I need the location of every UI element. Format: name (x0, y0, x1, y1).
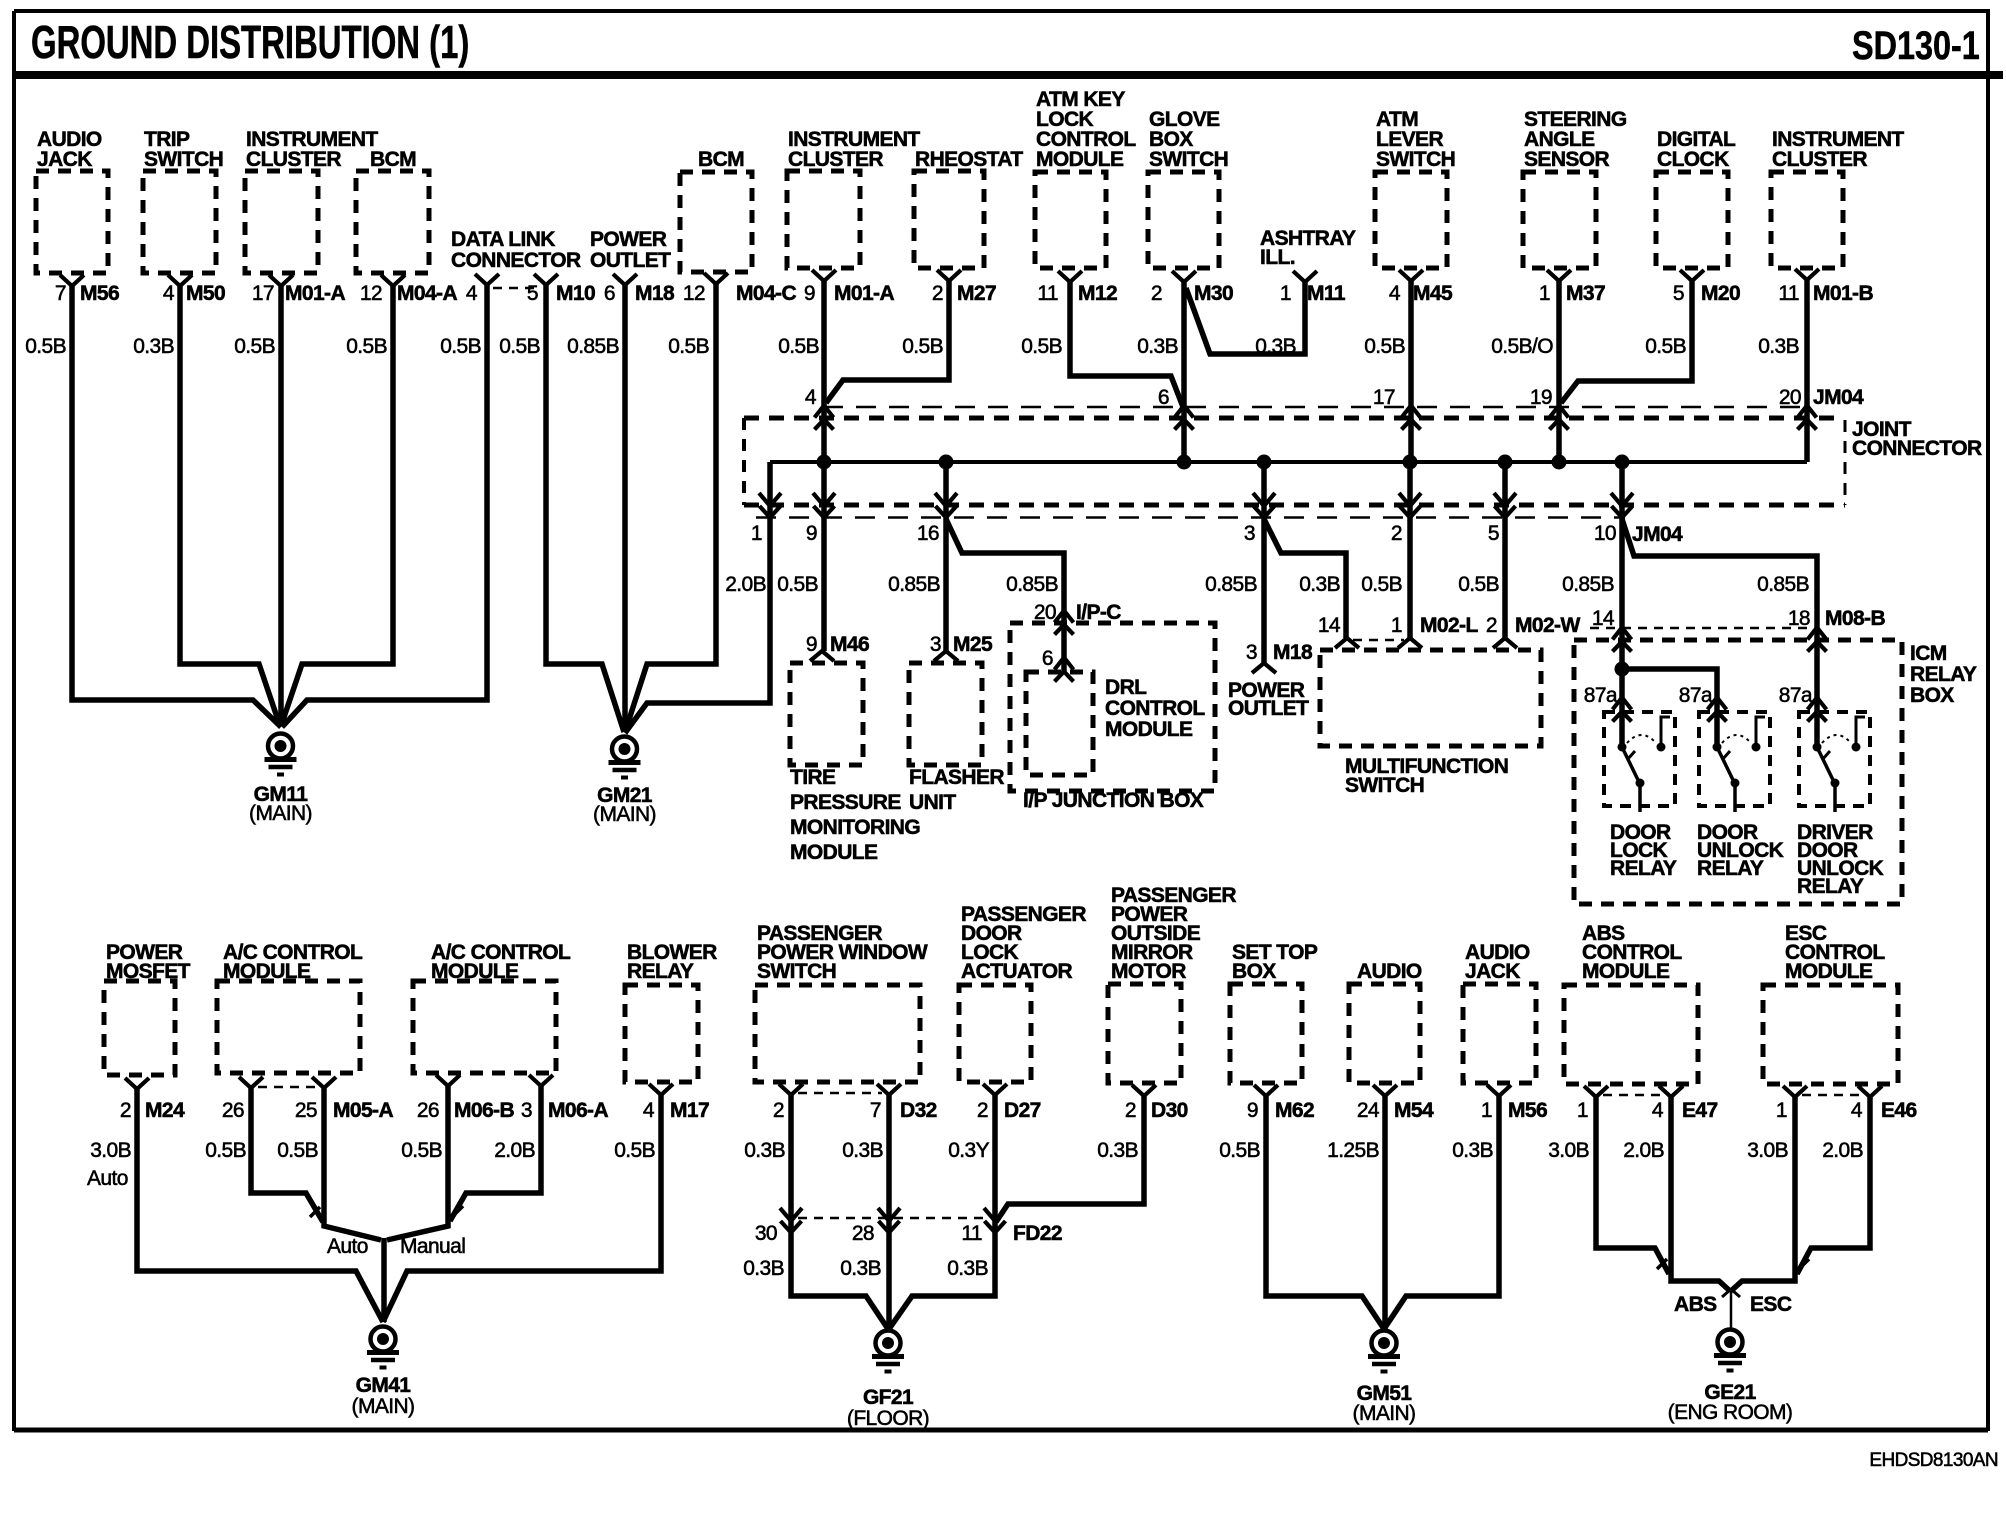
svg-text:4: 4 (1652, 1099, 1664, 1122)
svg-text:4: 4 (163, 282, 175, 305)
svg-text:RELAY: RELAY (627, 960, 694, 983)
svg-text:0.5B: 0.5B (1361, 573, 1402, 596)
joint connector JM04 box (823, 406, 1807, 409)
svg-text:(MAIN): (MAIN) (249, 802, 312, 825)
ground GE21 (ENG ROOM) (1718, 1330, 1743, 1355)
svg-text:GROUND DISTRIBUTION (1): GROUND DISTRIBUTION (1) (31, 18, 469, 69)
component box SET TOP BOX (1230, 984, 1302, 1083)
wire JM04 pin9 to M46 (821, 462, 827, 651)
svg-text:M01-B: M01-B (1813, 282, 1873, 305)
ICM junction dot and feed to door unlock relay (1615, 662, 1630, 677)
wire JM04 pin16 to M25 (943, 462, 949, 651)
connector pin 9 M62 at x=1266 (1254, 1085, 1278, 1096)
wire DLC pin5 to GM21 (546, 285, 624, 732)
connector tie multifunction pins (1353, 639, 1404, 642)
connector pin 11 M12 at x=1070 (1058, 271, 1082, 282)
svg-text:87a: 87a (1679, 684, 1713, 707)
svg-text:BCM: BCM (370, 148, 416, 171)
svg-text:2.0B: 2.0B (494, 1139, 535, 1162)
svg-text:6: 6 (1042, 647, 1053, 670)
connector pin 1 at x=1795 (1783, 1086, 1807, 1097)
connector M08-B pin18 (1808, 628, 1827, 652)
wire M06-A pin3 2.0B (450, 1086, 541, 1221)
svg-text:TIRE: TIRE (790, 766, 836, 789)
svg-text:M46: M46 (830, 633, 869, 656)
svg-text:OUTLET: OUTLET (590, 249, 671, 272)
svg-text:JACK: JACK (37, 148, 92, 171)
svg-text:AUDIO: AUDIO (1357, 960, 1422, 983)
svg-text:2: 2 (1486, 614, 1497, 637)
svg-text:M56: M56 (80, 282, 119, 305)
svg-text:18: 18 (1788, 607, 1810, 630)
svg-text:1: 1 (1391, 614, 1402, 637)
svg-text:MODULE: MODULE (1582, 960, 1670, 983)
svg-text:6: 6 (604, 282, 615, 305)
svg-text:ILL.: ILL. (1260, 246, 1295, 269)
wire M17 blower relay to GM41 (383, 1095, 661, 1322)
svg-text:4: 4 (466, 282, 478, 305)
wire M11 ashtray joins M30 (1186, 282, 1305, 354)
connector M02-W pin2 (1493, 638, 1517, 648)
svg-text:1: 1 (1776, 1099, 1787, 1122)
svg-text:20: 20 (1034, 601, 1056, 624)
connector pin 4 M45 at x=1411 (1399, 270, 1423, 281)
wire D32 pin7 to FD22 pin28 (886, 1095, 892, 1329)
svg-text:0.5B/O: 0.5B/O (1491, 335, 1553, 358)
wire M24 3.0B to GM41 (137, 1089, 383, 1322)
svg-text:30: 30 (755, 1222, 777, 1245)
svg-text:(MAIN): (MAIN) (1353, 1402, 1416, 1425)
svg-text:0.3B: 0.3B (947, 1257, 988, 1280)
svg-text:(MAIN): (MAIN) (352, 1395, 415, 1418)
svg-text:POWER: POWER (590, 228, 667, 251)
svg-text:Auto: Auto (87, 1167, 128, 1190)
svg-text:3: 3 (521, 1099, 532, 1122)
component box RHEOSTAT (914, 171, 984, 268)
connector tie M08-B pins (1590, 627, 1810, 630)
svg-text:CLOCK: CLOCK (1657, 148, 1729, 171)
svg-text:0.85B: 0.85B (1562, 573, 1614, 596)
wire D30 mirror motor joins FD22 pin11 (996, 1096, 1144, 1222)
svg-text:DATA LINK: DATA LINK (451, 228, 555, 251)
svg-text:0.5B: 0.5B (234, 335, 275, 358)
svg-text:M02-L: M02-L (1420, 614, 1478, 637)
svg-text:0.3B: 0.3B (743, 1257, 784, 1280)
svg-text:MOSFET: MOSFET (106, 960, 191, 983)
svg-text:2.0B: 2.0B (1623, 1139, 1664, 1162)
svg-text:SD130-1: SD130-1 (1852, 23, 1980, 68)
svg-text:(FLOOR): (FLOOR) (847, 1407, 929, 1430)
svg-text:1.25B: 1.25B (1327, 1139, 1379, 1162)
connector tie E47 (1603, 1094, 1664, 1097)
wire JM04 pin3 to power outlet M18 (1261, 462, 1267, 663)
wire M04-C to GM21 (625, 284, 716, 732)
svg-text:0.5B: 0.5B (902, 335, 943, 358)
connector pin 4 M50 at x=180 (168, 275, 192, 286)
wire M56 to GM11 (72, 285, 281, 727)
svg-text:0.5B: 0.5B (1364, 335, 1405, 358)
multifunction switch box (1320, 650, 1541, 746)
connector M02-L pin1 (1398, 638, 1422, 648)
svg-text:ESC: ESC (1750, 1293, 1792, 1316)
svg-text:5: 5 (1488, 522, 1499, 545)
wire M12 to JM04 pin6 (1070, 282, 1183, 407)
svg-text:0.5B: 0.5B (346, 335, 387, 358)
svg-text:11: 11 (1778, 282, 1799, 305)
svg-text:0.3Y: 0.3Y (948, 1139, 989, 1162)
svg-text:3.0B: 3.0B (90, 1139, 131, 1162)
svg-text:0.5B: 0.5B (25, 335, 66, 358)
ground GM51 (MAIN) (1372, 1331, 1397, 1356)
svg-text:JM04: JM04 (1632, 523, 1683, 546)
svg-text:M45: M45 (1413, 282, 1453, 305)
svg-text:MODULE: MODULE (223, 960, 311, 983)
wire M05-A pin26 (251, 1088, 323, 1222)
svg-text:0.3B: 0.3B (1758, 335, 1799, 358)
svg-text:M12: M12 (1078, 282, 1117, 305)
FD22 chevrons (780, 1208, 802, 1233)
connector pin 25 M05-A at x=324 (312, 1077, 336, 1088)
wire branch pin10 to M08-B pin18 (1622, 519, 1817, 747)
svg-text:20: 20 (1779, 386, 1801, 409)
wire M05-A pin25 auto branch (324, 1088, 381, 1240)
svg-text:26: 26 (222, 1099, 244, 1122)
wire M56 audio jack to GM51 (1384, 1096, 1499, 1329)
connector pin 9 M01-A at x=824 (812, 270, 836, 281)
svg-text:D32: D32 (900, 1099, 937, 1122)
header rule (13, 71, 2003, 79)
svg-text:M62: M62 (1275, 1099, 1314, 1122)
svg-text:OUTLET: OUTLET (1228, 697, 1309, 720)
svg-text:SWITCH: SWITCH (1149, 148, 1228, 171)
connector tie M05-A (258, 1086, 317, 1089)
connector pin 2 M30 at x=1184 (1172, 271, 1196, 282)
svg-text:0.5B: 0.5B (1021, 335, 1062, 358)
wire M06-B pin26 manual branch (387, 1086, 448, 1240)
component box ATM LEVER SWITCH (1375, 172, 1447, 268)
svg-text:0.5B: 0.5B (205, 1139, 246, 1162)
svg-text:ACTUATOR: ACTUATOR (961, 960, 1073, 983)
svg-text:Manual: Manual (400, 1235, 465, 1258)
connector pin 26 at x=251 (239, 1077, 263, 1088)
wire combined A/C to GM41 (381, 1238, 387, 1322)
svg-text:(MAIN): (MAIN) (593, 803, 656, 826)
wire E47 pin1 3.0B (1596, 1097, 1669, 1274)
svg-text:Auto: Auto (327, 1235, 368, 1258)
component box A/C CONTROL MODULE (2) (413, 981, 556, 1073)
svg-text:0.5B: 0.5B (401, 1139, 442, 1162)
svg-text:0.5B: 0.5B (777, 573, 818, 596)
svg-text:0.3B: 0.3B (744, 1139, 785, 1162)
component box STEERING ANGLE SENSOR (1523, 172, 1596, 268)
svg-text:M27: M27 (957, 282, 996, 305)
svg-text:M24: M24 (145, 1099, 185, 1122)
svg-text:MODULE: MODULE (1785, 960, 1873, 983)
wire D27 pin2 to FD22 pin11 (889, 1095, 995, 1329)
svg-text:EHDSD8130AN: EHDSD8130AN (1869, 1450, 1998, 1471)
svg-text:5: 5 (1673, 282, 1684, 305)
component box POWER MOSFET (104, 981, 175, 1075)
svg-text:M56: M56 (1508, 1099, 1547, 1122)
svg-text:25: 25 (295, 1099, 317, 1122)
ground GM21 (MAIN) (612, 737, 637, 762)
component box DIGITAL CLOCK (1656, 172, 1728, 268)
component box TIRE PRESSURE MONITORING MODULE (790, 663, 863, 765)
connector multifunction pin14 (1335, 638, 1359, 648)
svg-text:SWITCH: SWITCH (1376, 148, 1455, 171)
svg-text:CONNECTOR: CONNECTOR (1852, 437, 1982, 460)
svg-text:SENSOR: SENSOR (1524, 148, 1610, 171)
connector pin 24 M54 at x=1385 (1373, 1085, 1397, 1096)
svg-text:2: 2 (1391, 522, 1402, 545)
svg-text:0.5B: 0.5B (440, 335, 481, 358)
svg-text:CLUSTER: CLUSTER (788, 148, 883, 171)
component box FLASHER UNIT (909, 663, 982, 765)
connector pin 17 M01-A at x=281 (269, 275, 293, 286)
svg-text:0.3B: 0.3B (1097, 1139, 1138, 1162)
svg-text:0.3B: 0.3B (1299, 573, 1340, 596)
ground GF21 (FLOOR) (876, 1331, 901, 1356)
GE21 stem (1730, 1291, 1733, 1330)
svg-text:RELAY: RELAY (1910, 663, 1977, 686)
svg-text:MODULE: MODULE (1036, 148, 1124, 171)
svg-text:SWITCH: SWITCH (1345, 774, 1424, 797)
svg-text:GM41: GM41 (356, 1374, 412, 1397)
component box INSTRUMENT CLUSTER (2) (787, 171, 860, 268)
svg-text:0.5B: 0.5B (499, 335, 540, 358)
svg-text:M18: M18 (635, 282, 675, 305)
component box TRIP SWITCH (143, 171, 216, 273)
connector pin 12 M04-C at x=716 (704, 273, 728, 284)
svg-text:4: 4 (805, 386, 817, 409)
relay DRIVER DOOR UNLOCK RELAY (1799, 712, 1870, 806)
svg-text:19: 19 (1530, 386, 1552, 409)
svg-text:0.5B: 0.5B (1219, 1139, 1260, 1162)
wire M04-A to GM11 (281, 285, 393, 726)
svg-text:RHEOSTAT: RHEOSTAT (915, 148, 1023, 171)
relay DOOR LOCK RELAY (1604, 712, 1675, 806)
JM04 top chevrons (815, 406, 834, 430)
svg-text:2: 2 (1151, 282, 1162, 305)
svg-text:28: 28 (852, 1222, 874, 1245)
wire E47 pin4 2.0B to GE21 (1671, 1097, 1730, 1291)
svg-text:M01-A: M01-A (285, 282, 345, 305)
component box PASSENGER POWER OUTSIDE MIRROR MOTOR (1108, 984, 1181, 1083)
component box PASSENGER DOOR LOCK ACTUATOR (959, 985, 1031, 1082)
svg-text:I/P JUNCTION BOX: I/P JUNCTION BOX (1023, 789, 1204, 812)
svg-text:2.0B: 2.0B (725, 573, 766, 596)
connector pin 4 E46 at x=1870 (1858, 1086, 1882, 1097)
component box INSTRUMENT CLUSTER (245, 171, 318, 273)
svg-text:M01-A: M01-A (834, 282, 894, 305)
svg-text:BOX: BOX (1910, 684, 1954, 707)
svg-text:M04-C: M04-C (736, 282, 796, 305)
svg-text:MODULE: MODULE (431, 960, 519, 983)
svg-text:11: 11 (961, 1222, 982, 1245)
svg-text:M54: M54 (1394, 1099, 1434, 1122)
connector pin 6 M18 at x=625 (613, 274, 637, 285)
svg-text:17: 17 (1373, 386, 1395, 409)
svg-text:E46: E46 (1881, 1099, 1917, 1122)
connector tie D32 (798, 1092, 882, 1095)
svg-text:87a: 87a (1779, 684, 1813, 707)
svg-text:9: 9 (806, 633, 817, 656)
svg-text:12: 12 (360, 282, 382, 305)
svg-text:ICM: ICM (1910, 642, 1947, 665)
svg-text:87a: 87a (1584, 684, 1618, 707)
svg-text:M25: M25 (953, 633, 993, 656)
svg-text:MODULE: MODULE (1105, 718, 1193, 741)
wire M54 audio to GM51 (1382, 1096, 1388, 1329)
connector I/P-C pin20 (1055, 611, 1074, 635)
svg-text:9: 9 (804, 282, 815, 305)
wire branch pin16 to I/P-C pin20 (946, 519, 1064, 672)
svg-text:CONNECTOR: CONNECTOR (451, 249, 581, 272)
connector pin 4 E47 at x=1671 (1659, 1086, 1683, 1097)
wire M20 digital clock joins pin19 (1561, 281, 1692, 403)
svg-text:0.85B: 0.85B (1205, 573, 1257, 596)
svg-text:2: 2 (120, 1099, 131, 1122)
svg-text:0.3B: 0.3B (1452, 1139, 1493, 1162)
component box BLOWER RELAY (625, 985, 698, 1082)
connector M18 power outlet (middle) (1252, 663, 1276, 673)
svg-text:M06-A: M06-A (548, 1099, 608, 1122)
svg-text:10: 10 (1594, 522, 1616, 545)
I/P junction box (1010, 623, 1215, 791)
svg-text:14: 14 (1592, 607, 1615, 630)
connector pin 1 M11 at x=1305 (1293, 271, 1317, 282)
svg-text:3.0B: 3.0B (1548, 1139, 1589, 1162)
svg-text:M08-B: M08-B (1825, 607, 1885, 630)
svg-text:M02-W: M02-W (1515, 614, 1580, 637)
svg-text:0.5B: 0.5B (614, 1139, 655, 1162)
svg-text:CONTROL: CONTROL (1105, 697, 1205, 720)
svg-text:M37: M37 (1566, 282, 1605, 305)
svg-text:M17: M17 (670, 1099, 709, 1122)
connector M08-B pin14 (1613, 628, 1632, 652)
svg-text:RELAY: RELAY (1697, 857, 1764, 880)
wire M01-B to JM04 pin20 (1804, 280, 1810, 462)
svg-text:0.3B: 0.3B (842, 1139, 883, 1162)
connector pin 1 M37 at x=1559 (1547, 270, 1571, 281)
svg-text:UNIT: UNIT (909, 791, 956, 814)
svg-text:0.3B: 0.3B (1137, 335, 1178, 358)
svg-text:6: 6 (1158, 386, 1169, 409)
svg-text:1: 1 (1539, 282, 1550, 305)
svg-text:CLUSTER: CLUSTER (246, 148, 341, 171)
svg-text:1: 1 (751, 522, 762, 545)
wire M01-A instrument cluster to JM04 pin4 (821, 281, 827, 462)
svg-text:M30: M30 (1194, 282, 1233, 305)
connector pin 2 M24 at x=137 (125, 1078, 149, 1089)
svg-text:7: 7 (870, 1099, 881, 1122)
ground GM11 (MAIN) (268, 734, 293, 759)
svg-text:M06-B: M06-B (454, 1099, 514, 1122)
JM04 bottom chevrons (759, 493, 781, 518)
svg-text:CLUSTER: CLUSTER (1772, 148, 1867, 171)
svg-text:1: 1 (1577, 1099, 1588, 1122)
svg-text:1: 1 (1481, 1099, 1492, 1122)
svg-text:2: 2 (932, 282, 943, 305)
wire JM04 pin1 2.0B to GM21 (625, 462, 770, 733)
component box BCM (356, 171, 429, 273)
svg-text:1: 1 (1280, 282, 1291, 305)
connector pin 1 at x=1596 (1584, 1086, 1608, 1097)
ICM relay box (1574, 640, 1902, 904)
connector pin 2 D27 at x=995 (983, 1084, 1007, 1095)
svg-text:16: 16 (917, 522, 939, 545)
wire M27 rheostat joins pin4 (826, 281, 949, 403)
wire E46 pin4 2.0B (1797, 1097, 1870, 1274)
wire DLC pin4 to GM11 (282, 285, 487, 727)
connector FD22 tie (798, 1217, 988, 1220)
svg-text:7: 7 (55, 282, 66, 305)
connector pin 7 M56 at x=72 (60, 275, 84, 286)
svg-text:0.85B: 0.85B (888, 573, 940, 596)
svg-text:JACK: JACK (1465, 960, 1520, 983)
svg-text:0.5B: 0.5B (277, 1139, 318, 1162)
connector pin 1 M56 at x=1499 (1487, 1085, 1511, 1096)
component box ATM KEY LOCK CONTROL MODULE (1035, 172, 1106, 268)
svg-text:FD22: FD22 (1013, 1222, 1062, 1245)
svg-text:D30: D30 (1151, 1099, 1188, 1122)
wire JM04 pin5 to M02-W (1502, 462, 1508, 638)
ground GM41 (MAIN) (371, 1327, 396, 1352)
connector pin 4 at x=487 (475, 274, 499, 285)
connector pin 4 M17 at x=661 (649, 1084, 673, 1095)
component box A/C CONTROL MODULE (217, 981, 360, 1073)
connector pin 5 M10 at x=546 (534, 274, 558, 285)
svg-text:2.0B: 2.0B (1822, 1139, 1863, 1162)
svg-text:MONITORING: MONITORING (790, 816, 920, 839)
page frame (14, 9, 1990, 13)
svg-text:26: 26 (417, 1099, 439, 1122)
component box AUDIO (1349, 984, 1420, 1083)
connector pin 7 D32 at x=889 (877, 1084, 901, 1095)
component box ABS CONTROL MODULE (1564, 985, 1698, 1084)
svg-text:M04-A: M04-A (397, 282, 457, 305)
svg-text:ABS: ABS (1674, 1293, 1717, 1316)
svg-text:E47: E47 (1682, 1099, 1718, 1122)
wire M37 to JM04 pin19 (1556, 281, 1562, 462)
svg-text:0.3B: 0.3B (133, 335, 174, 358)
DRL control module box (1026, 672, 1093, 775)
wire M50 to GM11 (180, 285, 280, 726)
connector pin 26 M06-B at x=448 (436, 1075, 460, 1086)
svg-text:(ENG ROOM): (ENG ROOM) (1668, 1401, 1793, 1424)
svg-text:RELAY: RELAY (1610, 857, 1677, 880)
wire M30 glove box to JM04 pin6 (1181, 282, 1187, 462)
component box INSTRUMENT CLUSTER (3) (1771, 172, 1843, 268)
connector pin 2 D30 at x=1144 (1132, 1085, 1156, 1096)
connector pin 2 at x=791 (779, 1084, 803, 1095)
svg-text:M10: M10 (556, 282, 595, 305)
svg-text:M20: M20 (1701, 282, 1740, 305)
svg-text:0.85B: 0.85B (567, 335, 619, 358)
svg-text:17: 17 (252, 282, 274, 305)
connector tie E46 (1802, 1094, 1863, 1097)
svg-text:4: 4 (643, 1099, 655, 1122)
wire M18 power outlet to GM21 (622, 285, 628, 732)
component box AUDIO JACK (36, 171, 108, 273)
connector tie DLC M10 (493, 287, 541, 290)
connector pin 11 M01-B at x=1807 (1795, 269, 1819, 280)
svg-text:0.5B: 0.5B (778, 335, 819, 358)
joint connector bus (770, 460, 1807, 464)
svg-text:3: 3 (1246, 641, 1257, 664)
svg-text:MODULE: MODULE (790, 841, 878, 864)
svg-text:BOX: BOX (1232, 960, 1276, 983)
